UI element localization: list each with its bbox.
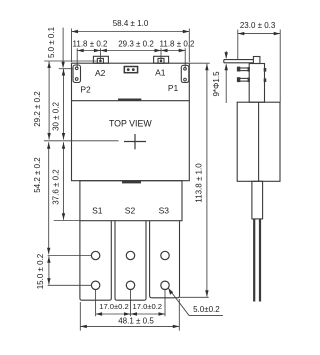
ext line center level: [44, 140, 119, 142]
ext line P2 center up: [76, 48, 78, 68]
leg S2 outline: [115, 221, 146, 301]
svg-text:A2: A2: [95, 68, 106, 78]
ext lines 48.1: [79, 302, 81, 331]
ext line body left edge up: [71, 29, 73, 63]
arrows 37.6: [62, 142, 65, 149]
svg-text:11.8 ± 0.2: 11.8 ± 0.2: [73, 39, 108, 48]
side upper body: [249, 64, 264, 103]
ext lines hole centers down: [95, 290, 97, 316]
center mark cross: [124, 141, 146, 143]
svg-text:113.8 ± 1.0: 113.8 ± 1.0: [195, 163, 204, 203]
leg S3 outline: [150, 221, 180, 298]
svg-text:TOP VIEW: TOP VIEW: [109, 118, 152, 128]
arrows 29.2: [47, 62, 50, 69]
side bottom tab: [252, 181, 263, 219]
step line bump: [118, 99, 141, 101]
dim line 15.0: [48, 256, 50, 284]
arrows 58.4: [72, 30, 79, 33]
svg-text:P1: P1: [168, 83, 179, 93]
svg-text:23.0 ± 0.3: 23.0 ± 0.3: [240, 21, 276, 30]
dim line 113.8: [206, 64, 208, 297]
pilot slot P1: [181, 65, 189, 82]
svg-text:S2: S2: [125, 206, 136, 216]
body step line: [72, 100, 190, 102]
arrow leader 5.0 dia: [168, 288, 173, 295]
svg-text:48.1 ± 0.5: 48.1 ± 0.5: [118, 316, 154, 325]
leader hole row 2: [48, 284, 92, 286]
ext line p-pin level: [59, 68, 73, 70]
pilot slot P2: [73, 65, 81, 83]
svg-text:54.2 ± 0.2: 54.2 ± 0.2: [33, 157, 42, 193]
dim lines 17.0: [96, 313, 131, 315]
arrow pin dia down: [225, 52, 228, 59]
dim line 54.2: [48, 142, 50, 254]
arrows 17.0 second: [131, 312, 138, 315]
arrow 5.0 down: [61, 62, 64, 68]
dim line 29.3: [100, 50, 161, 52]
dim line 48.1: [80, 325, 179, 327]
dim line 58.4: [72, 31, 190, 33]
dim line 37.6: [63, 142, 65, 220]
side main box: [237, 102, 280, 181]
svg-text:5.0 ± 0.1: 5.0 ± 0.1: [47, 26, 56, 58]
side right stubs: [264, 68, 267, 72]
relay body outline (top view): [72, 63, 190, 181]
ext line A2 hole up: [99, 48, 101, 60]
dim line 23.0: [238, 33, 280, 35]
svg-text:58.4 ± 1.0: 58.4 ± 1.0: [113, 19, 149, 28]
side lead wire right: [259, 219, 261, 302]
svg-text:30 ± 0.2: 30 ± 0.2: [52, 102, 61, 131]
body bottom bump: [122, 181, 141, 184]
ext line body right edge up: [188, 29, 190, 63]
dim line pin dia: [225, 51, 227, 58]
dim line 11.8 left: [77, 50, 100, 52]
ext line block bottom: [54, 220, 80, 222]
arrowheads: [47, 30, 209, 328]
svg-text:17.0±0.2: 17.0±0.2: [99, 302, 129, 311]
ext line A1 hole up: [160, 48, 162, 60]
leader hole row 1: [48, 255, 92, 257]
arrows 15.0: [47, 256, 50, 263]
svg-text:29.3 ± 0.2: 29.3 ± 0.2: [118, 39, 154, 48]
leg holes: [91, 251, 99, 259]
side main box divider: [258, 102, 260, 181]
ext lines 23.0: [237, 30, 239, 60]
arrows 11.8 right: [161, 49, 168, 52]
terminal tab A1: [154, 56, 169, 63]
dim line 30: [63, 69, 65, 140]
terminal block section: [80, 181, 182, 221]
arrows 54.2: [47, 142, 50, 149]
arrow pin dia up: [225, 64, 228, 71]
svg-text:37.6 ± 0.2: 37.6 ± 0.2: [52, 169, 61, 205]
leg S1 outline: [80, 221, 111, 301]
side pin 3: [240, 77, 249, 79]
ext line a-pin level: [44, 60, 97, 62]
arrows 29.3: [100, 49, 107, 52]
ext line legs bottom right: [180, 296, 209, 298]
arrows 23.0: [238, 32, 245, 35]
svg-text:5.0±0.2: 5.0±0.2: [193, 305, 220, 314]
side top tab: [253, 57, 260, 64]
side pin A (top): [224, 59, 254, 61]
ext line P1 center up: [184, 48, 186, 68]
dim line 5.0 vertical: [62, 28, 64, 68]
ext line body top right: [189, 62, 210, 64]
arrows 11.8 left: [77, 49, 84, 52]
svg-text:11.8 ± 0.2: 11.8 ± 0.2: [160, 39, 195, 48]
svg-text:15.0 ± 0.2: 15.0 ± 0.2: [36, 253, 45, 289]
dim line 11.8 right: [161, 50, 185, 52]
svg-text:29.2 ± 0.2: 29.2 ± 0.2: [33, 91, 42, 127]
arrows 113.8: [205, 64, 208, 71]
side pin 2: [240, 67, 249, 69]
dim line 29.2: [48, 62, 50, 140]
side lead wire left: [253, 219, 255, 302]
leader 5.0 hole dia: [168, 288, 223, 315]
arrows 30: [62, 69, 65, 76]
center indicator connector: [124, 67, 137, 73]
svg-text:P2: P2: [80, 85, 91, 95]
svg-text:S3: S3: [159, 206, 170, 216]
svg-text:S1: S1: [92, 206, 103, 216]
svg-text:17.0±0.2: 17.0±0.2: [133, 302, 163, 311]
svg-text:9*Φ1.5: 9*Φ1.5: [212, 71, 221, 97]
terminal tab A2: [93, 56, 108, 63]
arrows 17.0 first: [96, 312, 103, 315]
arrows 48.1: [80, 325, 87, 328]
svg-text:A1: A1: [155, 67, 166, 77]
